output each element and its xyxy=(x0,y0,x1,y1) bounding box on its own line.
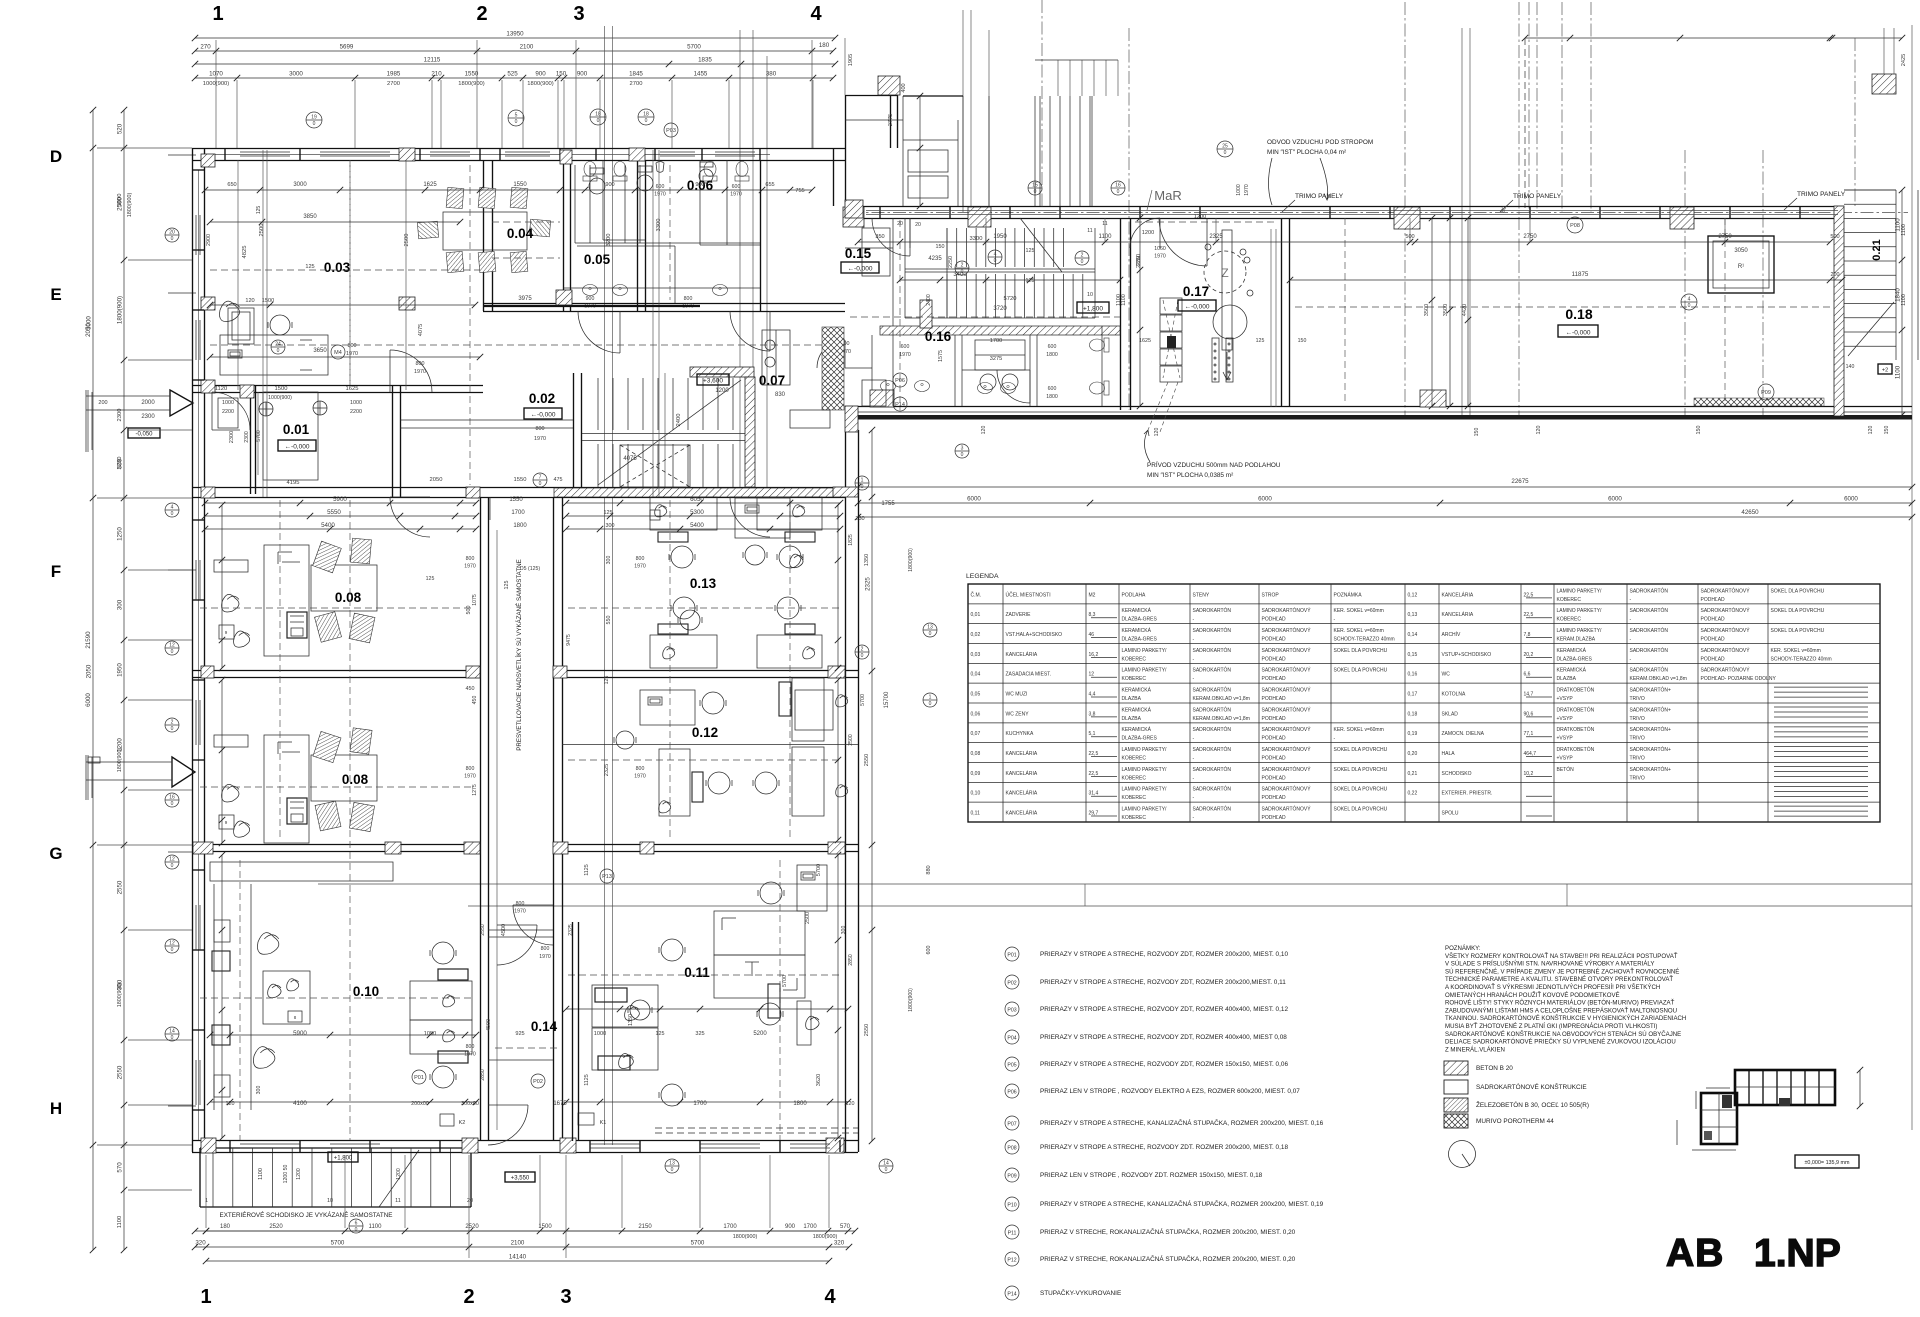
svg-text:KER. SOKEL v=60mm: KER. SOKEL v=60mm xyxy=(1334,628,1384,634)
room 0.09 small marks xyxy=(614,690,833,749)
svg-text:300: 300 xyxy=(841,926,847,935)
svg-text:SADROKARTÓNOVÝ: SADROKARTÓNOVÝ xyxy=(1262,786,1312,793)
svg-text:LAMINO PARKETY/: LAMINO PARKETY/ xyxy=(1122,806,1168,812)
svg-text:4100: 4100 xyxy=(293,1100,307,1107)
svg-text:800: 800 xyxy=(541,946,550,952)
svg-text:PRIERAZY V STROPE A STRECHE, R: PRIERAZY V STROPE A STRECHE, ROZVODY ZDT… xyxy=(1040,1061,1288,1068)
svg-text:800: 800 xyxy=(466,766,475,772)
svg-text:SOKEL DLA POVRCHU: SOKEL DLA POVRCHU xyxy=(1334,787,1388,793)
svg-text:1970: 1970 xyxy=(899,352,911,358)
central staircase walls xyxy=(574,367,756,487)
svg-text:1800(900): 1800(900) xyxy=(733,1234,758,1240)
svg-text:PODHĽAD- POZIARNE ODOLNY: PODHĽAD- POZIARNE ODOLNY xyxy=(1701,676,1777,682)
svg-text:P05: P05 xyxy=(1007,1063,1016,1069)
svg-text:0: 0 xyxy=(961,452,964,458)
svg-text:DLAZBA-GRES: DLAZBA-GRES xyxy=(1122,637,1158,643)
svg-text:0: 0 xyxy=(171,801,174,807)
svg-text:KERAMICKÁ: KERAMICKÁ xyxy=(1122,686,1152,693)
second desk room 0.13 top xyxy=(735,498,790,565)
svg-text:SCHODY-TERAZZO 40mm: SCHODY-TERAZZO 40mm xyxy=(1334,637,1395,643)
svg-text:PODHĽAD: PODHĽAD xyxy=(1262,795,1287,801)
furniture room 0.08 second xyxy=(219,728,377,843)
svg-text:VŠETKY ROZMERY KONTROLOVAŤ NA: VŠETKY ROZMERY KONTROLOVAŤ NA STAVBE!!! … xyxy=(1445,952,1678,960)
svg-text:SOKEL DLA POVRCHU: SOKEL DLA POVRCHU xyxy=(1334,648,1388,654)
svg-text:0,19: 0,19 xyxy=(1408,731,1418,737)
svg-text:5,1: 5,1 xyxy=(1089,731,1096,737)
svg-text:4: 4 xyxy=(1688,297,1691,303)
svg-text:2850: 2850 xyxy=(480,1069,486,1081)
svg-text:0,15: 0,15 xyxy=(1408,652,1418,658)
elevation box +1,800 stairs xyxy=(328,1152,358,1162)
vertical reference lines junction top xyxy=(963,10,989,212)
corridor 0.02 long lines xyxy=(400,420,573,520)
svg-text:1800: 1800 xyxy=(1046,352,1058,358)
svg-text:4075: 4075 xyxy=(623,456,637,462)
room label 0.08 second xyxy=(342,772,369,787)
svg-text:5700: 5700 xyxy=(860,694,866,706)
furniture room 0.04 meeting xyxy=(417,187,550,272)
svg-text:6: 6 xyxy=(355,1221,358,1227)
svg-text:5700: 5700 xyxy=(816,864,822,876)
svg-text:PRESVETLĽOVACIE NADSVETLÍKY SÚ: PRESVETLĽOVACIE NADSVETLÍKY SÚ VYKÁZANÉ … xyxy=(516,559,523,750)
svg-text:SADROKARTÓNOVÉ KONŠTRUKCIE: SADROKARTÓNOVÉ KONŠTRUKCIE xyxy=(1476,1082,1587,1091)
vertical reference line pair grid 3 xyxy=(605,26,613,1145)
left wall window sill details xyxy=(196,215,200,1105)
room label 0.02 xyxy=(529,391,555,406)
dimension chain left outer 21590 xyxy=(85,107,96,1253)
room label 0.10 xyxy=(353,984,379,999)
svg-text:525: 525 xyxy=(507,71,518,78)
svg-text:LAMINO PARKETY/: LAMINO PARKETY/ xyxy=(1557,588,1603,594)
svg-text:R¹: R¹ xyxy=(1738,264,1744,270)
svg-text:1970: 1970 xyxy=(464,1052,476,1058)
svg-text:150: 150 xyxy=(1884,426,1890,435)
svg-text:2550: 2550 xyxy=(864,1024,870,1036)
svg-text:TRIVO: TRIVO xyxy=(1630,716,1645,722)
svg-text:200: 200 xyxy=(98,400,107,406)
radiator slots 0.17 xyxy=(1212,338,1233,382)
svg-text:PODHĽAD: PODHĽAD xyxy=(1262,637,1287,643)
svg-text:0,09: 0,09 xyxy=(971,771,981,777)
text TRIMO PANELY 3 xyxy=(1784,191,1846,210)
svg-text:ODVOD VZDUCHU POD STROPOM: ODVOD VZDUCHU POD STROPOM xyxy=(1267,139,1373,146)
dimension chain top row4 detailed xyxy=(192,71,836,88)
svg-text:1625: 1625 xyxy=(346,386,359,392)
svg-text:SADROKARTÓNOVÝ: SADROKARTÓNOVÝ xyxy=(1701,587,1751,594)
svg-text:4235: 4235 xyxy=(928,256,942,262)
WC toilets refined xyxy=(589,162,713,194)
svg-text:9475: 9475 xyxy=(566,634,572,646)
svg-text:4195: 4195 xyxy=(287,480,300,486)
hatched columns wing bottom wall xyxy=(870,390,1446,407)
long vertical pair x263 room 0.03 xyxy=(263,150,267,497)
svg-text:+2: +2 xyxy=(1882,367,1888,373)
svg-text:P04: P04 xyxy=(1007,1036,1016,1042)
svg-text:+3,600: +3,600 xyxy=(703,377,723,384)
svg-text:800: 800 xyxy=(536,426,545,432)
svg-text:3200: 3200 xyxy=(606,234,612,247)
corridor wall left x480 xyxy=(481,497,489,1141)
svg-text:DRATKOBETÓN: DRATKOBETÓN xyxy=(1557,746,1595,753)
notes list P01-P14 xyxy=(1005,947,1324,1300)
svg-text:570: 570 xyxy=(840,1224,851,1230)
svg-text:PODHĽAD: PODHĽAD xyxy=(1262,716,1287,722)
svg-text:POZNÁMKA: POZNÁMKA xyxy=(1334,591,1363,598)
svg-text:1000(900): 1000(900) xyxy=(268,395,292,401)
site section line upper xyxy=(318,884,1912,906)
svg-text:46: 46 xyxy=(1089,632,1095,638)
svg-text:42650: 42650 xyxy=(1741,509,1759,516)
svg-text:2550: 2550 xyxy=(864,754,870,766)
svg-text:1350: 1350 xyxy=(864,554,870,566)
svg-text:120: 120 xyxy=(1868,426,1874,435)
svg-text:2400: 2400 xyxy=(676,414,682,427)
svg-text:0,06: 0,06 xyxy=(971,711,981,717)
svg-text:0,16: 0,16 xyxy=(1408,672,1418,678)
svg-text:125: 125 xyxy=(256,206,262,215)
shaft dashed X near central stairs xyxy=(620,445,690,487)
svg-text:PODHĽAD: PODHĽAD xyxy=(1701,597,1726,603)
svg-text:SADROKARTÓN: SADROKARTÓN xyxy=(1630,627,1669,634)
svg-text:+VSYP: +VSYP xyxy=(1557,736,1574,742)
svg-text:1100: 1100 xyxy=(1895,365,1902,379)
grid axis labels left xyxy=(49,147,62,1118)
svg-text:5400: 5400 xyxy=(321,522,335,529)
additional tiny rotated dims left block xyxy=(206,206,866,1081)
svg-text:P10: P10 xyxy=(1007,1203,1016,1209)
top right corner dim details xyxy=(845,35,1907,126)
svg-text:SADROKARTÓNOVÝ: SADROKARTÓNOVÝ xyxy=(1262,805,1312,812)
svg-text:3500: 3500 xyxy=(1424,304,1430,316)
svg-text:ŽELEZOBETÓN B 30, OCEĽ 10 505(: ŽELEZOBETÓN B 30, OCEĽ 10 505(R) xyxy=(1476,1100,1589,1109)
svg-text:←-0,000: ←-0,000 xyxy=(1185,303,1210,310)
WC 0.16 fixtures xyxy=(881,338,1110,395)
svg-text:EXTERIER. PRIESTR.: EXTERIER. PRIESTR. xyxy=(1442,791,1493,797)
svg-text:0: 0 xyxy=(171,947,174,953)
svg-text:900: 900 xyxy=(785,1224,796,1230)
wing vertical dims lines xyxy=(1429,215,1471,409)
svg-text:SADROKARTÓN: SADROKARTÓN xyxy=(1193,667,1232,674)
central staircase steps xyxy=(582,373,745,487)
svg-text:1000: 1000 xyxy=(594,1031,606,1037)
svg-text:11875: 11875 xyxy=(1572,271,1589,278)
door dims scattered xyxy=(464,184,1166,1058)
svg-text:2520: 2520 xyxy=(269,1224,283,1230)
outer wall bottom (lower block) xyxy=(192,1141,858,1153)
svg-text:150: 150 xyxy=(1696,426,1702,435)
svg-text:13950: 13950 xyxy=(506,31,524,38)
svg-text:4500: 4500 xyxy=(486,1019,492,1031)
svg-text:120: 120 xyxy=(245,298,254,304)
svg-text:KERAMICKÁ: KERAMICKÁ xyxy=(1122,726,1152,733)
svg-text:1: 1 xyxy=(212,3,223,25)
svg-text:DLAZBA-GRES: DLAZBA-GRES xyxy=(1122,617,1158,623)
svg-text:0: 0 xyxy=(671,1167,674,1173)
svg-text:5: 5 xyxy=(515,113,518,119)
svg-text:8,3: 8,3 xyxy=(1089,612,1096,618)
outer wall right upper block xyxy=(834,95,846,206)
svg-text:KANCELÁRIA: KANCELÁRIA xyxy=(1006,809,1038,816)
svg-text:800: 800 xyxy=(348,343,357,349)
svg-text:P07: P07 xyxy=(1007,1122,1016,1128)
svg-text:2700: 2700 xyxy=(387,81,400,87)
svg-text:DRATKOBETÓN: DRATKOBETÓN xyxy=(1557,726,1595,733)
svg-text:900: 900 xyxy=(695,182,704,188)
svg-text:0: 0 xyxy=(994,258,997,264)
svg-text:SPOLU: SPOLU xyxy=(1442,810,1459,816)
room label 0.07 xyxy=(759,373,786,398)
svg-text:0.10: 0.10 xyxy=(353,984,379,999)
rotated dims room 0.11 area xyxy=(486,912,811,1031)
svg-text:SADROKARTÓN+: SADROKARTÓN+ xyxy=(1630,766,1672,773)
room label 0.08 first xyxy=(335,590,362,605)
svg-text:1825: 1825 xyxy=(848,534,854,546)
corridor wall right x553 xyxy=(554,497,563,1141)
svg-text:SADROKARTÓNOVÝ: SADROKARTÓNOVÝ xyxy=(1262,726,1312,733)
svg-text:1800(900): 1800(900) xyxy=(908,988,914,1012)
svg-text:4420: 4420 xyxy=(1462,304,1468,316)
svg-text:5300: 5300 xyxy=(690,509,704,516)
junction vertical dim lines xyxy=(917,93,1143,409)
svg-text:KER. SOKEL v=60mm: KER. SOKEL v=60mm xyxy=(1334,608,1384,614)
svg-text:SKLAD: SKLAD xyxy=(1442,711,1459,717)
left protrusion canopy lines xyxy=(86,390,92,800)
svg-text:2850: 2850 xyxy=(848,954,854,966)
svg-text:0.01: 0.01 xyxy=(283,422,310,437)
more top extension lines junction xyxy=(1035,60,1118,96)
svg-text:1970: 1970 xyxy=(1154,254,1166,260)
svg-text:0: 0 xyxy=(171,726,174,732)
svg-text:0,04: 0,04 xyxy=(971,672,981,678)
svg-text:125: 125 xyxy=(1026,248,1035,254)
interior dims lower block xyxy=(226,556,855,1107)
svg-text:14: 14 xyxy=(169,1029,175,1035)
porotherm cross hatched wall near 0.07 xyxy=(822,327,844,410)
room label 0.15 xyxy=(845,246,872,261)
svg-text:2325: 2325 xyxy=(865,577,872,591)
svg-text:350: 350 xyxy=(875,234,884,240)
svg-text:0.03: 0.03 xyxy=(324,260,351,275)
svg-text:650: 650 xyxy=(227,182,236,188)
svg-text:3620: 3620 xyxy=(816,1074,822,1086)
svg-text:2300: 2300 xyxy=(229,431,235,443)
svg-text:125: 125 xyxy=(1256,338,1265,344)
svg-text:SADROKARTÓN: SADROKARTÓN xyxy=(1193,706,1232,713)
svg-text:0: 0 xyxy=(929,701,932,707)
svg-text:TECHNICKÉ PARAMETRE A KVALITU.: TECHNICKÉ PARAMETRE A KVALITU. STAVEBNÉ … xyxy=(1445,975,1673,983)
hatched columns WC xyxy=(556,150,572,305)
room label 0.18 xyxy=(1565,306,1592,322)
svg-text:KUCHYNKA: KUCHYNKA xyxy=(1006,731,1034,737)
svg-text:DRATKOBETÓN: DRATKOBETÓN xyxy=(1557,706,1595,713)
grid bubbles top row xyxy=(306,109,1774,400)
elevation box +1,800 junction xyxy=(1077,302,1109,313)
svg-text:WC: WC xyxy=(1442,672,1451,678)
svg-text:SADROKARTÓN: SADROKARTÓN xyxy=(1630,667,1669,674)
svg-text:11: 11 xyxy=(1087,228,1092,234)
svg-text:KOBEREC: KOBEREC xyxy=(1122,756,1147,762)
furniture room 0.03 xyxy=(220,301,329,375)
svg-text:1700: 1700 xyxy=(990,338,1002,344)
room centerlines dashed horizontal xyxy=(200,222,1830,1048)
extra labels wing bottom xyxy=(981,426,1480,437)
svg-text:0: 0 xyxy=(597,118,600,124)
svg-text:5550: 5550 xyxy=(327,509,341,516)
svg-text:DLAZBA: DLAZBA xyxy=(1557,676,1577,682)
svg-text:0,07: 0,07 xyxy=(971,731,981,737)
svg-text:KANCELÁRIA: KANCELÁRIA xyxy=(1006,651,1038,658)
svg-text:EXTERIÉROVÉ SCHODISKO JE VYKÁZ: EXTERIÉROVÉ SCHODISKO JE VYKÁZANÉ SAMOST… xyxy=(220,1210,393,1219)
svg-text:←-0,000: ←-0,000 xyxy=(848,265,873,272)
svg-text:M4: M4 xyxy=(334,350,342,356)
svg-text:SADROKARTÓNOVÝ: SADROKARTÓNOVÝ xyxy=(1262,667,1312,674)
svg-text:G: G xyxy=(49,844,62,863)
svg-text:1835: 1835 xyxy=(698,57,712,64)
small boxed symbols near walls xyxy=(214,308,254,1097)
svg-text:0.02: 0.02 xyxy=(529,391,555,406)
svg-text:2000: 2000 xyxy=(141,400,155,406)
svg-text:0.11: 0.11 xyxy=(684,965,710,980)
svg-text:300: 300 xyxy=(256,1086,262,1095)
svg-text:KER. SOKEL v=60mm: KER. SOKEL v=60mm xyxy=(1334,727,1384,733)
svg-text:ZABUDOVANÝMI LIŠTAMI HMS A CEL: ZABUDOVANÝMI LIŠTAMI HMS A CELOPLOŠNE PR… xyxy=(1445,1006,1677,1014)
svg-text:0.21: 0.21 xyxy=(1871,239,1883,260)
svg-text:2150: 2150 xyxy=(638,1224,652,1230)
svg-text:PODHĽAD: PODHĽAD xyxy=(1262,617,1287,623)
svg-text:20,2: 20,2 xyxy=(1524,652,1534,658)
walls WC rooms 0.05 0.06 xyxy=(563,160,761,311)
extension verticals room 0.03 xyxy=(238,160,406,390)
svg-text:0,17: 0,17 xyxy=(1408,691,1418,697)
svg-text:5700: 5700 xyxy=(691,1240,705,1247)
junction right wall hatch xyxy=(833,200,863,497)
svg-text:2520: 2520 xyxy=(465,1224,479,1230)
svg-text:1: 1 xyxy=(929,695,932,701)
svg-text:29,7: 29,7 xyxy=(1089,810,1099,816)
outer wall right lower block xyxy=(846,430,859,1152)
dims right side of lower block xyxy=(864,427,932,1144)
svg-text:LAMINO PARKETY/: LAMINO PARKETY/ xyxy=(1122,767,1168,773)
svg-text:SADROKARTÓN: SADROKARTÓN xyxy=(1193,766,1232,773)
svg-text:13: 13 xyxy=(927,625,933,631)
svg-text:14,7: 14,7 xyxy=(1524,691,1534,697)
svg-text:6000: 6000 xyxy=(1258,496,1272,503)
svg-text:1100: 1100 xyxy=(1121,294,1127,306)
svg-text:PRIERAZY V STROPE A STRECHE, K: PRIERAZY V STROPE A STRECHE, KANALIZAČNÁ… xyxy=(1040,1118,1324,1127)
text MaR handwritten xyxy=(1147,188,1182,210)
dim vertical inside lower block left xyxy=(219,502,225,1141)
svg-text:KOBEREC: KOBEREC xyxy=(1122,815,1147,821)
svg-text:600: 600 xyxy=(926,946,932,955)
svg-text:1125: 1125 xyxy=(584,1074,590,1086)
elevation box +3,550 xyxy=(505,1172,535,1182)
svg-text:0,08: 0,08 xyxy=(971,751,981,757)
svg-text:2500: 2500 xyxy=(805,912,811,924)
svg-text:6000: 6000 xyxy=(85,693,92,707)
wall between 0.08a and 0.08b xyxy=(192,671,858,678)
svg-text:PRÍVOD VZDUCHU 500mm NAD PODLA: PRÍVOD VZDUCHU 500mm NAD PODLAHOU xyxy=(1147,460,1281,469)
corridor lower rooms partitions 0.14 xyxy=(488,530,553,1130)
svg-text:+VSYP: +VSYP xyxy=(1557,756,1574,762)
svg-text:VST.HALA+SCHODISKO: VST.HALA+SCHODISKO xyxy=(1006,632,1063,638)
svg-text:0,02: 0,02 xyxy=(971,632,981,638)
svg-text:TRIVO: TRIVO xyxy=(1630,696,1645,702)
svg-text:-0,050: -0,050 xyxy=(135,431,153,437)
svg-text:0,18: 0,18 xyxy=(1408,711,1418,717)
svg-text:1200: 1200 xyxy=(715,388,729,394)
svg-text:0: 0 xyxy=(1117,189,1120,195)
svg-text:12: 12 xyxy=(169,857,175,863)
svg-text:880: 880 xyxy=(926,865,932,874)
svg-text:1200: 1200 xyxy=(396,1168,402,1180)
dim lines wing rows xyxy=(855,239,1845,283)
svg-text:STUPAČKY-VYKUROVANIE: STUPAČKY-VYKUROVANIE xyxy=(1040,1288,1121,1297)
svg-text:1845: 1845 xyxy=(629,71,643,78)
svg-text:ZASADACIA MIEST.: ZASADACIA MIEST. xyxy=(1006,672,1052,678)
svg-text:0: 0 xyxy=(171,649,174,655)
svg-text:1: 1 xyxy=(205,1198,208,1204)
svg-text:1575: 1575 xyxy=(938,350,944,362)
room elevation 0.17 xyxy=(1178,300,1216,311)
svg-text:4500: 4500 xyxy=(501,924,507,936)
svg-text:P11: P11 xyxy=(1008,1231,1017,1237)
drawing title AB 1.NP xyxy=(1666,1232,1841,1275)
svg-text:14140: 14140 xyxy=(509,1254,527,1261)
external staircase 0.21 right xyxy=(1844,190,1918,360)
room R1 equipment box 0.18 xyxy=(1708,236,1774,293)
svg-text:SADROKARTÓNOVÝ: SADROKARTÓNOVÝ xyxy=(1262,746,1312,753)
svg-text:5900: 5900 xyxy=(333,496,347,503)
svg-text:800: 800 xyxy=(636,556,645,562)
svg-text:4: 4 xyxy=(824,1286,836,1308)
svg-text:LAMINO PARKETY/: LAMINO PARKETY/ xyxy=(1122,648,1168,654)
svg-text:1500: 1500 xyxy=(275,386,288,392)
dimension chain bottom row1 xyxy=(192,1224,858,1240)
svg-text:K2: K2 xyxy=(459,1120,466,1126)
svg-text:SADROKARTÓNOVÝ: SADROKARTÓNOVÝ xyxy=(1262,706,1312,713)
svg-text:24: 24 xyxy=(275,342,281,348)
svg-text:800: 800 xyxy=(516,901,525,907)
svg-text:900: 900 xyxy=(586,296,595,302)
svg-text:0: 0 xyxy=(171,511,174,517)
svg-text:270: 270 xyxy=(200,44,211,51)
svg-text:0: 0 xyxy=(171,863,174,869)
furniture corridor desks room 0.13 top xyxy=(650,510,660,520)
svg-text:PRIERAZ LEN V STROPE , ROZVODY: PRIERAZ LEN V STROPE , ROZVODY ELEKTRO A… xyxy=(1040,1088,1300,1095)
svg-text:0.08: 0.08 xyxy=(335,590,362,605)
external staircase bottom left xyxy=(200,1148,473,1207)
svg-text:1800(900): 1800(900) xyxy=(458,81,484,87)
svg-text:90,6: 90,6 xyxy=(1524,711,1534,717)
cross hatch strip bottom of 0.18 xyxy=(1694,398,1824,406)
text TRIMO PANELY 1 xyxy=(1282,193,1344,212)
svg-text:0.18: 0.18 xyxy=(1565,306,1592,322)
svg-text:2230: 2230 xyxy=(117,457,123,470)
svg-text:1075: 1075 xyxy=(472,594,478,606)
svg-text:LAMINO PARKETY/: LAMINO PARKETY/ xyxy=(1122,787,1168,793)
svg-text:0.05: 0.05 xyxy=(584,252,611,267)
svg-text:SADROKARTÓN: SADROKARTÓN xyxy=(1630,607,1669,614)
grid bubbles inside plan xyxy=(271,181,1089,1173)
WC cell partitions refined xyxy=(575,165,760,303)
svg-text:1455: 1455 xyxy=(694,71,708,78)
svg-text:1700: 1700 xyxy=(803,1224,817,1230)
room label 0.14 xyxy=(531,1019,558,1034)
dimension chain bottom row3 14140 xyxy=(203,1254,832,1265)
svg-text:1905: 1905 xyxy=(848,54,854,66)
svg-text:22675: 22675 xyxy=(1511,478,1529,485)
svg-text:0: 0 xyxy=(961,269,964,275)
